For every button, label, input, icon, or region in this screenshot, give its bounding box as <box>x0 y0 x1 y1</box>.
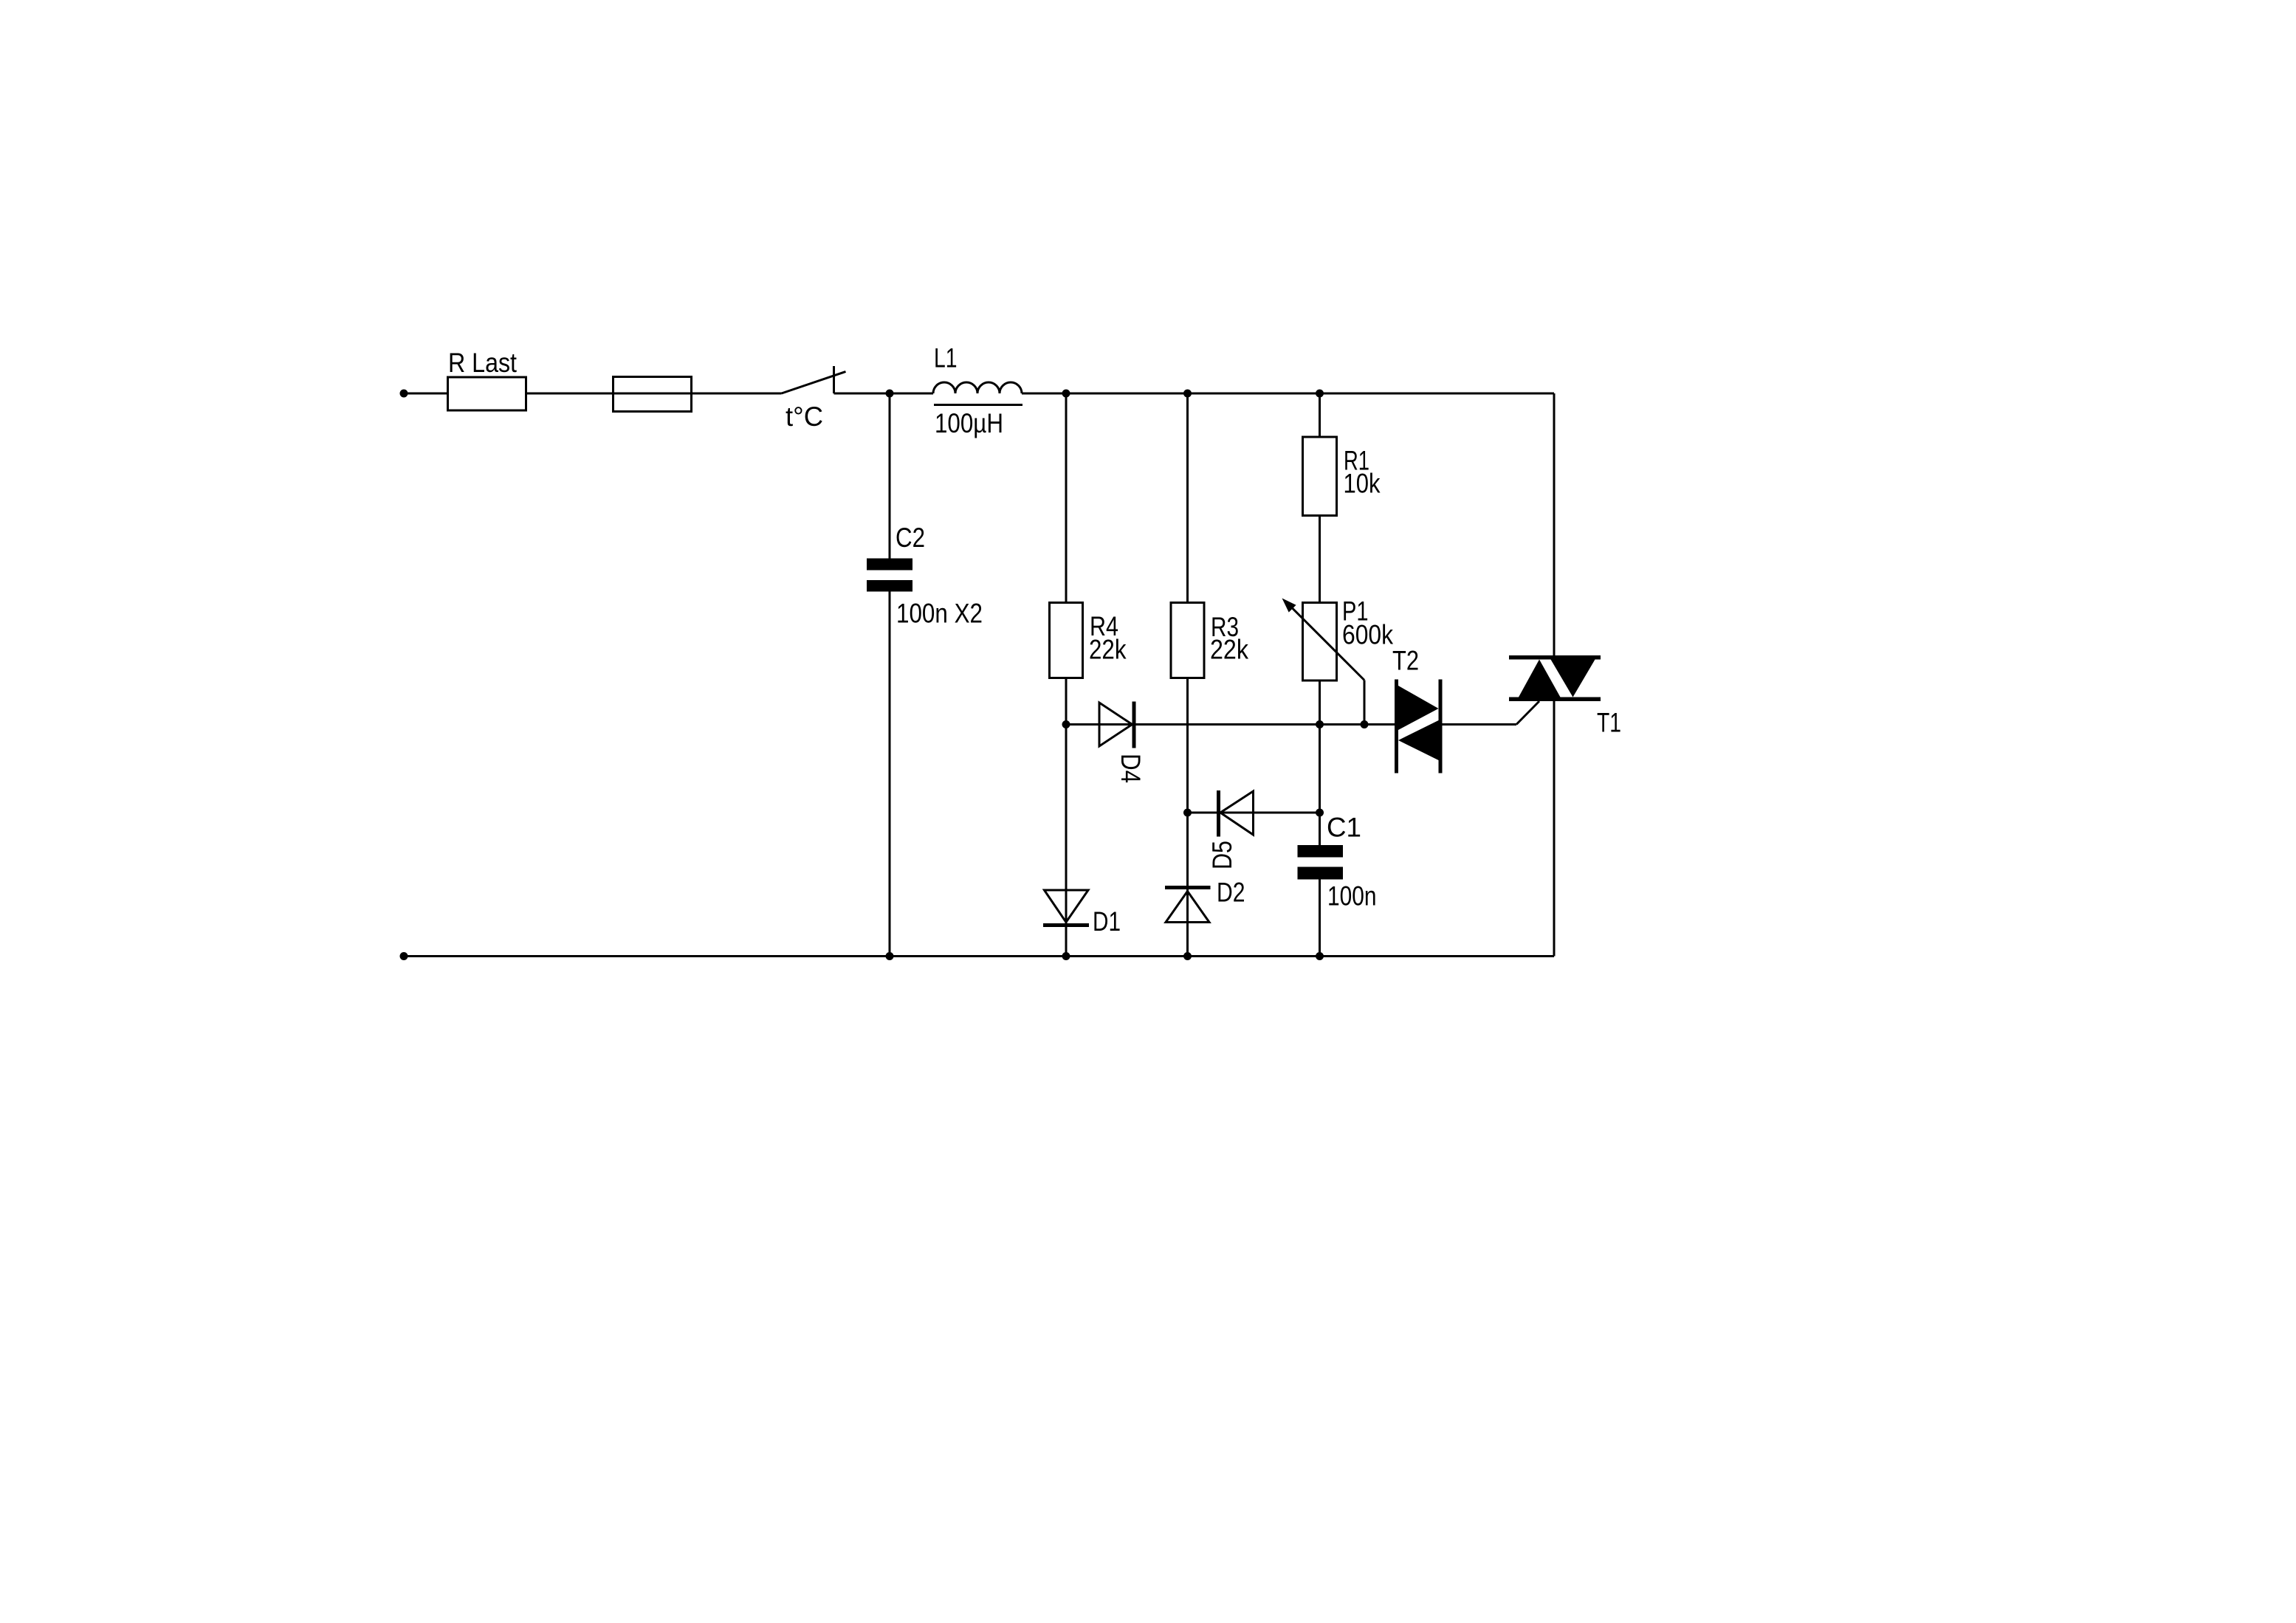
wire: fuse to thermal switch <box>692 393 782 395</box>
svg-text:100µH: 100µH <box>935 408 1003 438</box>
wire: R1 column upper <box>1319 393 1321 437</box>
wire: C1 to bottom rail <box>1319 880 1321 957</box>
diac T2 <box>1392 646 1443 773</box>
capacitor C1 100n <box>1298 813 1377 912</box>
svg-text:T2: T2 <box>1392 646 1419 676</box>
svg-text:T1: T1 <box>1597 708 1621 738</box>
node: left input terminal (top) <box>400 390 408 398</box>
svg-text:t°C: t°C <box>786 402 823 432</box>
potentiometer P1 600k <box>1282 596 1394 681</box>
svg-text:R Last: R Last <box>448 348 518 378</box>
svg-text:100n: 100n <box>1327 881 1377 912</box>
wire: gate wire middle segment <box>1136 723 1395 726</box>
svg-text:D5: D5 <box>1207 841 1237 869</box>
wire: right column (T1 main terminals) <box>1553 393 1556 957</box>
node A: C2 junction on top rail <box>886 390 894 398</box>
wire: gate wire right segment to T1 gate <box>1443 701 1540 725</box>
svg-text:100n X2: 100n X2 <box>896 599 983 629</box>
wire: D5 row left <box>1188 812 1217 814</box>
wire: bottom rail <box>404 955 1554 957</box>
wire: R1 to P1 <box>1319 516 1321 603</box>
svg-text:D2: D2 <box>1217 878 1245 908</box>
svg-text:600k: 600k <box>1342 620 1393 650</box>
node: R1 branch on top rail <box>1316 390 1324 398</box>
node: C1 on bottom rail <box>1316 952 1324 960</box>
wire: R3/D2 column lower <box>1186 678 1189 957</box>
node: wiper junction on gate wire <box>1361 720 1369 728</box>
svg-text:22k: 22k <box>1210 635 1248 665</box>
capacitor C2 100n X2 <box>867 523 983 629</box>
wire: C2 column upper <box>889 393 891 559</box>
wire: gate wire left segment <box>1066 723 1099 726</box>
svg-text:D1: D1 <box>1093 906 1121 937</box>
node: R4/D1 to gate wire junction <box>1062 720 1070 728</box>
wire: R4 column upper <box>1065 393 1068 603</box>
wire: top rail, L1 to right corner <box>1022 393 1554 395</box>
wire: R3 column upper <box>1186 393 1189 603</box>
resistor R4 22k <box>1050 603 1127 678</box>
svg-text:D4: D4 <box>1116 754 1146 783</box>
svg-text:10k: 10k <box>1344 469 1381 499</box>
fuse F1 <box>613 377 692 412</box>
node: R4 branch on top rail <box>1062 390 1070 398</box>
resistor R1 10k <box>1303 437 1381 516</box>
diode D5 <box>1207 790 1321 869</box>
node: P1 bottom / C1 column on gate wire <box>1316 720 1324 728</box>
wire: switch to node A <box>834 393 934 395</box>
thermal switch t°C <box>782 366 846 432</box>
wire: P1 bottom lead to gate wire <box>1319 680 1321 845</box>
svg-text:L1: L1 <box>934 343 958 373</box>
resistor R Last <box>448 348 526 410</box>
wire: R Last to fuse <box>526 393 613 395</box>
node: left input terminal (bottom) <box>400 952 408 960</box>
svg-text:C1: C1 <box>1327 813 1361 843</box>
node: R3 branch on top rail <box>1183 390 1192 398</box>
inductor L1 100µH <box>933 343 1022 439</box>
svg-text:22k: 22k <box>1089 635 1127 665</box>
wire: top rail, terminal to R Last <box>404 393 448 395</box>
node: D2 on bottom rail <box>1183 952 1192 960</box>
wire: P1 wiper drop <box>1364 680 1366 725</box>
diode D2 <box>1165 878 1245 923</box>
node: C2 on bottom rail <box>886 952 894 960</box>
diode D1 <box>1043 890 1121 937</box>
diode D4 <box>1099 702 1146 784</box>
node: D5 to R3/D2 column <box>1183 809 1192 817</box>
node: D1 on bottom rail <box>1062 952 1070 960</box>
wire: C2 column lower <box>889 592 891 957</box>
resistor R3 22k <box>1171 603 1248 678</box>
node: D5 to C1 column <box>1316 809 1324 817</box>
wire: R4 column lower (through D1) <box>1065 678 1068 957</box>
triac T1 <box>1509 655 1621 738</box>
svg-text:C2: C2 <box>896 523 925 553</box>
